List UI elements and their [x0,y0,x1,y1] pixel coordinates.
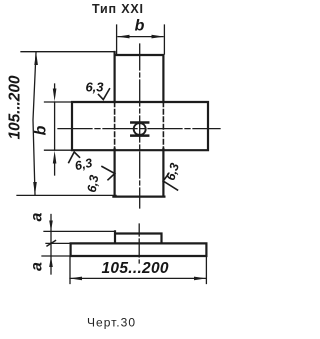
svg-text:105...200: 105...200 [7,75,24,139]
dimension b (top): extension lines [117,25,165,54]
dimension 105...200 (bottom): dimension line [70,277,206,279]
dimension b (top): dimension line [118,36,163,38]
dimension b (left): bottom arrow [54,160,56,175]
svg-text:6,3: 6,3 [163,161,182,182]
dimension b (top): arrowheads [117,35,130,39]
svg-text:Черт.30: Черт.30 [87,316,135,330]
svg-text:a: a [29,262,46,271]
svg-text:6,3: 6,3 [85,80,104,95]
dimension a slash tick [47,241,56,247]
svg-text:Тип XXI: Тип XXI [92,2,143,16]
roughness mark 6,3 (below left arm) [69,152,94,173]
top view cross outline: vertical bar [113,52,164,197]
svg-text:6,3: 6,3 [74,156,94,173]
svg-text:b: b [33,125,50,135]
dimension b (left): top arrow [54,84,56,95]
dimension b (left): dimension line [54,102,56,150]
roughness mark 6,3 (left of vertical bar, rotated) [85,167,115,194]
roughness mark 6,3 (top left) [85,80,109,100]
side view: vertical centerline [138,224,140,263]
side view: boss outline [115,231,162,243]
side view: plate outline [71,243,207,256]
horizontal centerline of top view [58,128,220,130]
dimension 105...200 (bottom): arrowheads [69,277,82,281]
dimension b (left): extension lines [45,102,73,150]
hidden edges of vertical bar (dashed) [115,102,164,149]
dimension a (upper): arrow and line [50,215,52,244]
top view cross outline: horizontal bar [72,102,208,150]
svg-text:a: a [29,212,46,221]
dimension a (lower): arrow and line [50,243,52,274]
dimension 105...200 (left): dimension line [33,53,36,195]
side view: boss top extension line [44,230,115,232]
dimension 105...200 (left): arrowheads [34,52,38,65]
svg-text:105...200: 105...200 [102,260,169,277]
side view: plate top extension line [42,243,71,256]
vertical centerline of top view [139,44,141,208]
center hole symbol [131,123,148,136]
svg-text:b: b [135,18,145,35]
dimension 105...200 (left): extension lines [17,52,116,196]
dimension 105...200 (bottom): extension lines [70,256,206,284]
roughness mark 6,3 (right of vertical bar, rotated) [163,161,182,190]
svg-text:6,3: 6,3 [85,174,102,194]
